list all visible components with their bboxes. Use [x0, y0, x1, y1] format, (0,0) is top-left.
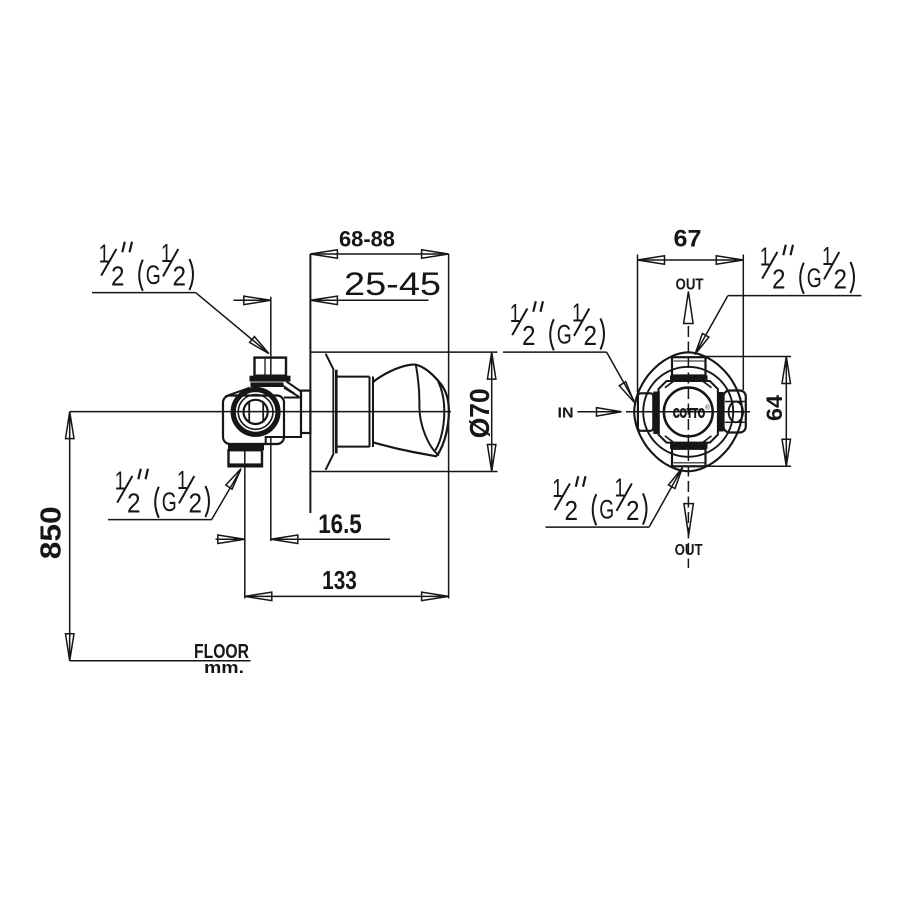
label 1/2(G1/2) bottom-left [108, 465, 212, 520]
svg-text:2: 2 [111, 261, 125, 292]
svg-text:Ø70: Ø70 [464, 388, 495, 438]
inner corner chamfer marks [665, 381, 674, 388]
svg-text:67: 67 [674, 226, 702, 253]
handle knob contour sweep [416, 365, 439, 456]
stem into wall [301, 391, 310, 433]
dimension 68-88 [310, 253, 448, 255]
front view: vertical dash-dot centerline [687, 326, 689, 568]
top fitting (hex nipple) [255, 358, 287, 376]
side view: horizontal centerline [70, 411, 451, 413]
right port flange bar [717, 392, 724, 432]
inlet ring middle [238, 395, 273, 430]
bottom fitting (hex nipple) [229, 450, 263, 466]
dimension 16.5 [244, 451, 246, 599]
svg-text:IN: IN [558, 404, 574, 421]
svg-text:850: 850 [35, 506, 67, 559]
OUT bottom annotation [684, 504, 694, 536]
svg-text:2: 2 [772, 264, 786, 295]
svg-text:®: ® [705, 405, 710, 412]
handle knob back ring [369, 377, 371, 448]
body middle circle [643, 367, 733, 457]
valve body roof diagonals [226, 388, 250, 397]
top fitting flange bars [250, 376, 291, 382]
dimension 67 [637, 255, 639, 393]
floor line [70, 660, 251, 662]
svg-text:2: 2 [189, 488, 203, 519]
svg-text:2: 2 [522, 320, 536, 351]
top OUT port tab [672, 357, 706, 375]
bottom OUT port tab [672, 449, 706, 467]
bottom port flange bar [670, 443, 708, 449]
svg-text:68-88: 68-88 [339, 226, 395, 251]
dimension 133 [245, 595, 449, 597]
label 1/2(G1/2) top-right [760, 241, 854, 295]
svg-text:OUT: OUT [675, 542, 703, 559]
cap circle [664, 388, 713, 437]
dimension 850 [69, 412, 71, 661]
svg-text:G: G [162, 487, 177, 517]
svg-text:2: 2 [584, 320, 598, 351]
svg-text:COTTO: COTTO [673, 406, 705, 421]
label 1/2(G1/2) middle (IN) [503, 297, 607, 352]
inlet ring (outer dark) [233, 390, 278, 435]
svg-text:G: G [557, 320, 572, 350]
left IN port tab [638, 393, 653, 431]
svg-text:G: G [807, 263, 822, 293]
svg-text:2: 2 [565, 495, 579, 526]
svg-text:2: 2 [626, 495, 640, 526]
svg-text:2: 2 [173, 261, 187, 292]
inlet slot chords [248, 401, 250, 422]
svg-text:G: G [146, 260, 161, 290]
shoulder to stem [287, 382, 302, 392]
svg-text:64: 64 [762, 394, 787, 421]
dimension 25-45 [270, 297, 272, 376]
dimension 64 [700, 356, 791, 358]
front view: horizontal centerline [626, 411, 750, 413]
inlet ring inner [244, 400, 268, 424]
cartridge square (chamfered) [659, 381, 718, 443]
right port fitting [724, 391, 746, 433]
svg-text:mm.: mm. [204, 658, 244, 677]
label 1/2(G1/2) bottom (OUT) [546, 472, 650, 527]
bottom fitting flange bar [228, 444, 264, 450]
svg-text:2: 2 [127, 488, 141, 519]
handle knob bell top silhouette and outer face [373, 365, 449, 456]
label 1/2(G1/2) top-left [92, 238, 196, 293]
svg-text:16.5: 16.5 [318, 509, 362, 539]
escutcheon flange cone at wall [326, 354, 334, 370]
svg-text:2: 2 [834, 264, 848, 295]
valve body right block [266, 398, 301, 444]
top port flange bar [670, 376, 708, 382]
svg-text:25-45: 25-45 [344, 266, 441, 302]
valve body block [223, 396, 284, 445]
dimension Ø70 [310, 351, 497, 353]
svg-text:133: 133 [322, 565, 357, 595]
left port flange bar [653, 392, 660, 435]
svg-text:G: G [599, 495, 614, 525]
svg-text:OUT: OUT [676, 276, 704, 293]
escutcheon outer squircle [634, 352, 742, 471]
escutcheon collar cylinder [336, 376, 369, 378]
extension line knob tip [448, 254, 450, 599]
handle knob face inner arc [435, 382, 444, 451]
wall line [309, 254, 311, 513]
handle knob bottom silhouette [373, 442, 437, 456]
